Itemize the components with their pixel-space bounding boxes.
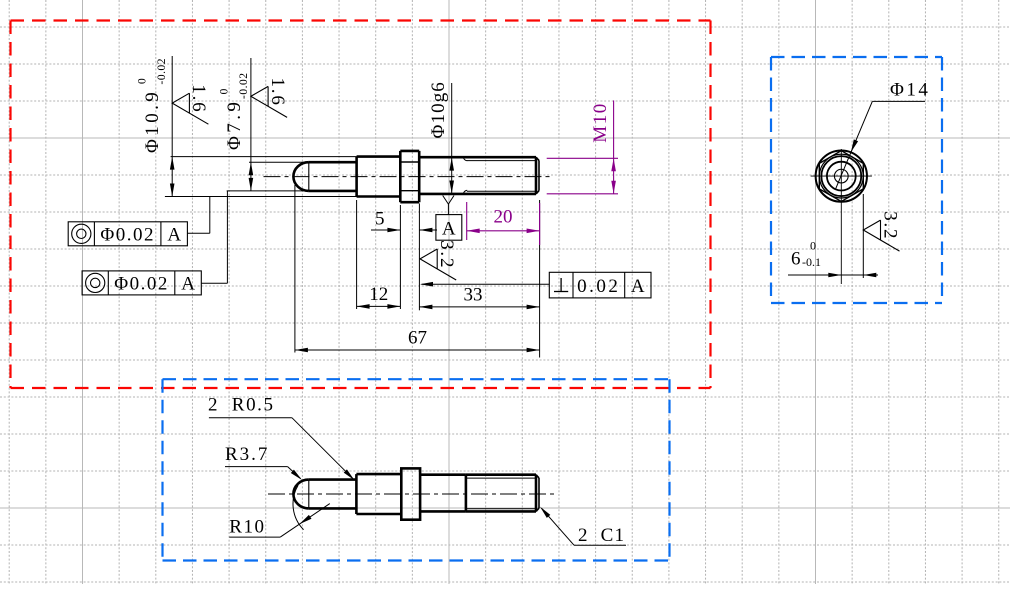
svg-text:2 R0.5: 2 R0.5 xyxy=(208,395,275,416)
svg-text:M10: M10 xyxy=(590,102,611,142)
magenta extension 20 right xyxy=(539,203,541,245)
svg-text:12: 12 xyxy=(369,284,388,305)
label 2 C1 xyxy=(540,507,626,546)
svg-text:A: A xyxy=(181,274,195,295)
label 2 R0.5 xyxy=(208,395,355,481)
dimension M10 xyxy=(547,100,618,193)
svg-text:Φ0.02: Φ0.02 xyxy=(114,273,169,294)
perpendicularity frame xyxy=(420,272,651,298)
blue frame side view xyxy=(771,57,942,303)
svg-text:1.6: 1.6 xyxy=(267,78,288,107)
blue frame bottom view xyxy=(163,379,670,560)
svg-text:2 C1: 2 C1 xyxy=(578,525,625,546)
svg-text:20: 20 xyxy=(494,207,513,228)
svg-text:6: 6 xyxy=(791,248,801,269)
roughness 1.6 first xyxy=(172,84,209,124)
svg-text:Φ14: Φ14 xyxy=(890,80,930,101)
svg-text:A: A xyxy=(167,225,181,246)
concentricity frame 1 xyxy=(68,197,210,246)
svg-text:A: A xyxy=(631,276,645,297)
datum A xyxy=(436,196,462,241)
roughness 3.2 main xyxy=(420,240,457,280)
svg-text:-0.1: -0.1 xyxy=(802,255,821,269)
length extension lines xyxy=(295,185,540,358)
red selection frame xyxy=(11,21,711,389)
bottom view shaft outline xyxy=(293,468,539,519)
svg-text:33: 33 xyxy=(464,285,483,306)
svg-text:67: 67 xyxy=(408,328,427,349)
label R10 xyxy=(229,485,329,537)
svg-text:R3.7: R3.7 xyxy=(225,444,269,465)
dimension phi10.9 xyxy=(137,56,175,197)
label R3.7 xyxy=(225,444,302,480)
main view centerline xyxy=(264,176,552,178)
dimension 67 xyxy=(295,328,540,353)
roughness 3.2 side xyxy=(863,211,900,251)
dimension 6 xyxy=(788,194,878,278)
svg-text:3.2: 3.2 xyxy=(879,211,900,240)
side view circles xyxy=(816,150,867,201)
dimension 33 xyxy=(419,285,539,310)
dimension 20 xyxy=(467,207,540,234)
main view shaft outline xyxy=(293,151,539,202)
svg-text:Φ10g6: Φ10g6 xyxy=(428,81,449,138)
concentricity frame 2 xyxy=(82,191,227,295)
svg-text:A: A xyxy=(442,219,456,240)
svg-text:0: 0 xyxy=(810,239,816,253)
svg-text:0.02: 0.02 xyxy=(577,276,620,297)
main view diameter extension lines xyxy=(165,157,357,197)
svg-text:5: 5 xyxy=(375,209,385,230)
svg-text:Φ0.02: Φ0.02 xyxy=(100,224,155,245)
svg-text:1.6: 1.6 xyxy=(188,84,209,113)
svg-text:3.2: 3.2 xyxy=(436,240,457,269)
dimension phi7.9 xyxy=(219,58,254,191)
dimension 5 xyxy=(371,209,437,233)
magenta extension 20 left xyxy=(466,202,468,240)
dimension 12 xyxy=(357,284,401,309)
dimension phi14 xyxy=(836,80,931,189)
dimension phi10g6 xyxy=(428,81,454,193)
side view centerlines xyxy=(811,149,872,284)
svg-text:R10: R10 xyxy=(229,517,265,538)
svg-text:Φ10.90-0.02: Φ10.90-0.02 xyxy=(137,58,169,153)
bottom view centerline xyxy=(268,493,557,495)
roughness 1.6 second xyxy=(251,78,288,118)
